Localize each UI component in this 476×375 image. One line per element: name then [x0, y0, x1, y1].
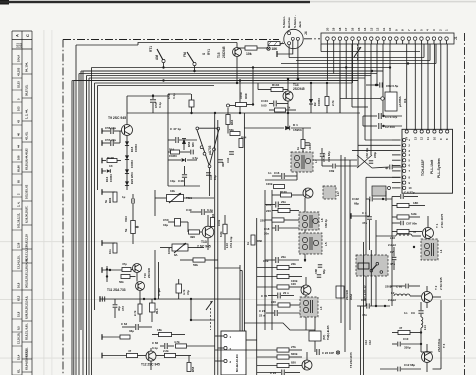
bus wire S-meter: [289, 57, 424, 59]
capacitor C45: [206, 172, 211, 174]
junction: [190, 319, 192, 321]
wire: [376, 74, 378, 86]
connector J1 pin 12: [376, 37, 379, 40]
wire PLL pin 2 long: [358, 144, 392, 146]
wire: [138, 355, 147, 357]
wire J1 pin stub: [439, 40, 441, 44]
svg-text:22 n: 22 n: [259, 314, 265, 318]
wire: [240, 270, 242, 272]
wire J1 pin stub: [358, 40, 360, 44]
op-amp pin: [196, 127, 199, 130]
svg-text:22k: 22k: [291, 262, 296, 266]
svg-text:L6: L6: [320, 218, 324, 222]
svg-text:10: 10: [432, 137, 436, 140]
scan artifact line: [0, 357, 476, 360]
table row divider: [22, 120, 32, 122]
op-amp pin: [203, 152, 206, 155]
connector J1 pin 13: [370, 37, 373, 40]
wire PLL pin 3 long: [352, 150, 392, 152]
svg-text:10n: 10n: [108, 249, 112, 254]
wire T9 emitter chain: [126, 136, 128, 191]
wire: [433, 296, 442, 298]
svg-text:47n: 47n: [390, 262, 395, 266]
connector J1 pin 9: [395, 37, 398, 40]
PLL left pin 2: [403, 144, 406, 147]
wire drop to rail: [239, 81, 241, 114]
svg-text:T11 2SA 733: T11 2SA 733: [107, 288, 126, 292]
svg-text:A: A: [15, 34, 20, 37]
wire: [426, 344, 428, 352]
table parts-list right border: [31, 31, 33, 375]
IC3 body: [221, 331, 246, 375]
connector J1 pin 3: [432, 37, 435, 40]
svg-text:100k: 100k: [239, 92, 243, 99]
table header underline: [12, 39, 32, 41]
svg-text:13: 13: [369, 27, 373, 31]
resistor R3: [397, 229, 409, 233]
svg-text:15953: 15953: [109, 174, 113, 182]
wire: [285, 372, 300, 374]
wire: [375, 220, 377, 255]
svg-text:1n: 1n: [404, 311, 408, 315]
svg-text:84, 104,: 84, 104,: [25, 62, 29, 72]
junction switch FM: [193, 70, 195, 72]
wire: [277, 103, 288, 105]
wire jack pin down: [297, 40, 299, 79]
PLL top pin 10: [433, 130, 436, 133]
junction bus: [407, 62, 409, 64]
op-amp pin: [217, 127, 220, 130]
wire L3 down: [305, 317, 307, 330]
wire: [257, 304, 278, 306]
junction: [287, 127, 289, 129]
table row divider: [12, 173, 22, 175]
resistor R8: [398, 330, 410, 334]
junction: [287, 112, 289, 114]
capacitor C65 3p: [389, 165, 391, 170]
IF transformer L3: [300, 297, 318, 317]
wire: [310, 104, 312, 113]
capacitor C104: [273, 101, 275, 107]
wire: [420, 302, 422, 310]
svg-text:C9: C9: [411, 311, 415, 315]
wire to jack: [280, 43, 284, 45]
capacitor C66: [164, 343, 166, 349]
connector J1 pin 18: [338, 37, 341, 40]
svg-text:PLL-System: PLL-System: [437, 158, 441, 178]
bus wire horizontal: [72, 80, 358, 82]
wire: [136, 273, 138, 282]
svg-text:D20 W03: D20 W03: [130, 172, 134, 184]
wire vertical left: [360, 306, 362, 375]
wire: [168, 139, 175, 141]
wire: [190, 211, 201, 213]
svg-text:62,3: 62,3: [17, 295, 21, 301]
svg-text:T12 2SC 945: T12 2SC 945: [141, 363, 160, 367]
wire drop: [252, 68, 254, 105]
table row divider: [22, 200, 32, 202]
wire J1 pin stub: [408, 40, 410, 44]
svg-text:103,103, 62: 103,103, 62: [25, 184, 29, 199]
svg-text:C 22 10P: C 22 10P: [322, 351, 334, 355]
svg-text:4.7µH: 4.7µH: [157, 288, 161, 296]
capacitor C55: [131, 199, 133, 204]
IF transformer L7: [291, 152, 313, 172]
svg-text:15,8: 15,8: [17, 311, 21, 317]
resistor R16: [278, 303, 290, 307]
wire: [290, 210, 299, 212]
capacitor C88: [318, 264, 322, 266]
wire J1 pin stub: [339, 40, 341, 44]
table row divider: [12, 101, 22, 103]
svg-text:101,19,2,12,: 101,19,2,12,: [17, 213, 21, 228]
wire bus drop: [351, 83, 353, 107]
svg-text:C89: C89: [329, 169, 335, 173]
wire: [326, 83, 328, 96]
svg-text:4.7k: 4.7k: [174, 340, 180, 344]
wire J1 pin drop: [382, 44, 384, 71]
resistor R12: [272, 218, 284, 222]
bus wire horizontal: [92, 67, 391, 69]
table row divider: [22, 289, 32, 291]
PLL left pin 5: [403, 159, 406, 162]
wire: [285, 175, 297, 177]
table row divider: [22, 262, 32, 264]
resistor R105: [245, 46, 257, 50]
svg-text:18k: 18k: [157, 328, 162, 332]
scan artifact line: [0, 298, 476, 301]
svg-text:2SA733-E: 2SA733-E: [437, 339, 441, 352]
svg-text:TH(L)-B-3/5: TH(L)-B-3/5: [326, 325, 330, 340]
IF transformer L17: [323, 186, 336, 199]
svg-text:47: 47: [413, 230, 417, 234]
terminal: [101, 128, 103, 134]
wire: [257, 276, 277, 278]
svg-text:R108: R108: [107, 156, 114, 160]
wire: [272, 210, 278, 212]
resistor R96: [274, 185, 285, 189]
capacitor C102: [369, 197, 371, 202]
transistor T12: [146, 351, 156, 361]
svg-text:6,16,36,18,87,: 6,16,36,18,87,: [25, 206, 29, 223]
svg-text:C56 10µ: C56 10µ: [105, 126, 116, 130]
capacitor C62 electrolytic: [150, 303, 156, 312]
svg-text:9,5: 9,5: [17, 326, 21, 330]
wire: [339, 64, 341, 114]
wire: [265, 259, 275, 261]
wire: [180, 259, 193, 261]
wire: [152, 103, 154, 113]
resistor R62: [236, 103, 247, 107]
junction bus: [252, 66, 254, 68]
connector J1 pin 10: [388, 37, 391, 40]
capacitor C56: [110, 128, 112, 134]
wire jack ground: [277, 40, 293, 54]
wire relay down: [375, 276, 377, 306]
trimmer TM2: [172, 244, 188, 251]
svg-text:15953: 15953: [134, 144, 138, 152]
resistor R102: [122, 268, 131, 272]
capacitor C70: [277, 293, 279, 299]
svg-text:C82 3p: C82 3p: [324, 219, 328, 228]
PLL left pin 4: [403, 153, 406, 156]
wire J1 pin stub: [427, 40, 429, 44]
wire stub: [102, 130, 110, 132]
resistor R17: [277, 348, 289, 352]
wire: [257, 349, 277, 351]
svg-text:16,9: 16,9: [17, 282, 21, 288]
table row divider: [12, 124, 22, 126]
svg-text:52,53: 52,53: [17, 81, 21, 88]
wire strip feed: [321, 51, 420, 53]
svg-text:220p: 220p: [385, 285, 392, 289]
svg-text:100k: 100k: [167, 247, 171, 254]
svg-text:220: 220: [271, 300, 276, 304]
svg-text:10µ: 10µ: [163, 223, 168, 227]
svg-text:C10: C10: [403, 337, 409, 341]
wire: [427, 216, 429, 228]
svg-text:2.2k: 2.2k: [163, 349, 169, 353]
capacitor C63: [135, 324, 137, 330]
junction bus: [162, 79, 164, 81]
svg-text:65,66: 65,66: [17, 165, 21, 172]
scanner corner blob: [0, 0, 9, 5]
wire: [390, 285, 405, 287]
svg-text:µA786A: µA786A: [398, 95, 402, 107]
svg-text:(ST): (ST): [322, 335, 326, 340]
wire: [272, 227, 275, 229]
wire: [427, 239, 429, 245]
wire: [119, 131, 121, 143]
svg-text:R63: R63: [230, 119, 234, 125]
svg-text:20n: 20n: [281, 200, 286, 204]
inductor L14: [421, 317, 423, 328]
svg-text:S-Meter -: S-Meter -: [293, 15, 297, 28]
PLL left pin 1: [403, 138, 406, 141]
wire J1 pin to PLL: [440, 44, 442, 129]
resistor R100: [281, 193, 292, 197]
wire J1 pin drop: [345, 44, 347, 68]
wire stub: [102, 170, 106, 172]
op-amp pin: [208, 165, 211, 168]
svg-text:3p: 3p: [385, 166, 389, 170]
wire J1 pin stub: [326, 40, 328, 44]
wire T15 emitter to bus: [236, 57, 238, 84]
junction: [190, 112, 192, 114]
capacitor C92: [366, 303, 368, 308]
svg-text:Jack: Jack: [298, 21, 302, 28]
svg-text:15953: 15953: [130, 160, 134, 168]
svg-text:18K: 18K: [413, 201, 419, 205]
wire vertical bundle: [344, 157, 346, 352]
wire T9 collector: [126, 96, 128, 125]
svg-text:C17: C17: [266, 203, 272, 207]
meter dashed link: [210, 308, 212, 330]
terminal: [101, 267, 103, 273]
transistor T11: [136, 282, 145, 291]
connector J1 pin 14: [363, 37, 366, 40]
PLL left pin 7: [403, 169, 406, 172]
capacitor C44: [190, 150, 192, 155]
wire PLL pin stub: [392, 154, 401, 156]
wire T14 emitter: [287, 101, 289, 113]
wire T5 collector: [305, 277, 307, 285]
wire J1 pin to PLL: [427, 44, 429, 129]
table row divider: [12, 149, 22, 151]
table row divider: [12, 77, 22, 79]
resistor R98: [325, 97, 329, 106]
wire stub: [102, 142, 110, 144]
junction: [382, 115, 384, 117]
junction: [375, 84, 377, 86]
wire: [183, 144, 185, 150]
connector J1 pin 6: [413, 37, 416, 40]
svg-text:C69 0.5µ: C69 0.5µ: [386, 84, 399, 88]
svg-text:10k: 10k: [246, 52, 252, 56]
svg-text:S-Meter-: S-Meter-: [282, 16, 286, 28]
bus wire vertical: [71, 81, 73, 375]
terminal: [101, 158, 103, 164]
svg-text:46: 46: [17, 133, 21, 136]
wire PLL pin 8 long: [366, 176, 401, 178]
coil L4 windings: [424, 243, 429, 248]
capacitor C4: [367, 216, 372, 218]
table row divider: [12, 63, 22, 65]
svg-text:16: 16: [350, 27, 354, 31]
junction bus: [371, 70, 373, 72]
capacitor C17: [275, 202, 277, 208]
wire J1 pin stub: [395, 40, 397, 44]
junction: [297, 78, 299, 80]
svg-text:63,64,65,66,67,58,: 63,64,65,66,67,58,: [25, 347, 29, 370]
junction: [287, 112, 289, 114]
wire: [382, 115, 402, 117]
table row divider: [12, 137, 22, 139]
wire J1 pin to PLL: [414, 44, 416, 129]
svg-text:L5: L5: [324, 242, 328, 246]
junction: [413, 246, 415, 248]
wire vertical: [154, 250, 156, 299]
wire J1 pin drop: [423, 44, 425, 58]
wire: [205, 211, 213, 213]
wire: [184, 166, 186, 174]
test point pin: [388, 187, 391, 190]
switch RT1b lever: [187, 52, 194, 63]
wire: [420, 328, 422, 352]
wire through relay: [370, 250, 372, 306]
svg-text:17: 17: [344, 27, 348, 31]
frame border top segment: [304, 38, 320, 40]
table row divider: [22, 224, 32, 226]
wire T13 emitter: [207, 238, 209, 250]
wire J1 pin drop: [339, 44, 341, 113]
wire PLL pin stub: [392, 150, 401, 152]
bus wire vertical: [78, 74, 80, 375]
svg-text:18: 18: [338, 27, 342, 31]
scan artifact line: [0, 240, 476, 243]
table parts-list middle border: [21, 31, 23, 375]
svg-text:65: 65: [17, 180, 21, 183]
resistor R15: [277, 285, 289, 289]
svg-text:43,103: 43,103: [17, 67, 21, 76]
varistor symbol: [267, 47, 270, 50]
bus wire horizontal: [87, 75, 372, 77]
bus wire S-meter: [296, 60, 430, 62]
svg-text:20n: 20n: [281, 255, 286, 259]
wire: [322, 165, 332, 167]
wire J1 pin stub: [383, 40, 385, 44]
svg-text:C18: C18: [264, 227, 270, 231]
svg-text:68p: 68p: [354, 202, 359, 206]
wire T5 to L3: [305, 295, 307, 297]
svg-text:220p: 220p: [373, 152, 377, 158]
PLL top pin 8: [446, 130, 449, 133]
crystal X1 shield: [372, 186, 386, 196]
wire: [281, 295, 294, 297]
svg-text:1n: 1n: [268, 171, 272, 175]
resistor R64: [230, 132, 240, 136]
IC3 pin 2: [224, 346, 227, 349]
svg-text:C13: C13: [364, 340, 368, 345]
wire J1 pin stub: [420, 40, 422, 44]
wire J1 pin drop: [352, 44, 354, 83]
svg-text:C88: C88: [314, 269, 318, 274]
diode D16: [107, 169, 111, 173]
junction bus: [193, 70, 195, 72]
capacitor C64 electrolytic: [176, 284, 182, 293]
wire: [369, 220, 371, 250]
wire: [257, 372, 281, 374]
wire: [340, 98, 381, 100]
IF transformer L5: [299, 233, 322, 254]
scanner edge strip top: [0, 1, 310, 3]
wire: [392, 343, 397, 345]
svg-text:2,19: 2,19: [17, 242, 21, 248]
capacitor C57: [110, 140, 112, 146]
wire: [239, 264, 241, 266]
resistor R58: [187, 363, 191, 372]
wire: [289, 276, 302, 278]
capacitor C59: [113, 243, 117, 253]
diode D21: [125, 181, 129, 185]
svg-text:19: 19: [332, 27, 336, 31]
wire: [247, 104, 253, 106]
wire: [257, 356, 277, 358]
resistor R2: [397, 215, 409, 219]
table row divider: [22, 371, 32, 373]
svg-text:L3: L3: [319, 306, 323, 310]
svg-text:2SC945: 2SC945: [293, 87, 305, 91]
terminal: [101, 353, 103, 359]
junction: [384, 305, 386, 307]
junction: [375, 305, 377, 307]
wire: [409, 285, 420, 287]
table row divider: [12, 161, 22, 163]
wire: [409, 205, 425, 207]
wire T14 collector: [287, 79, 289, 91]
connector J1 pin 16: [351, 37, 354, 40]
svg-text:2SC945: 2SC945: [222, 46, 226, 58]
junction: [106, 268, 108, 270]
resistor R68: [251, 235, 255, 245]
wire: [392, 222, 400, 224]
wire: [191, 319, 215, 321]
svg-text:1, 2, 44,: 1, 2, 44,: [25, 109, 29, 119]
wire: [102, 336, 120, 338]
wire J1 pin drop: [333, 44, 335, 74]
connector J1 pin 5: [420, 37, 423, 40]
wire L5 down: [304, 254, 306, 262]
